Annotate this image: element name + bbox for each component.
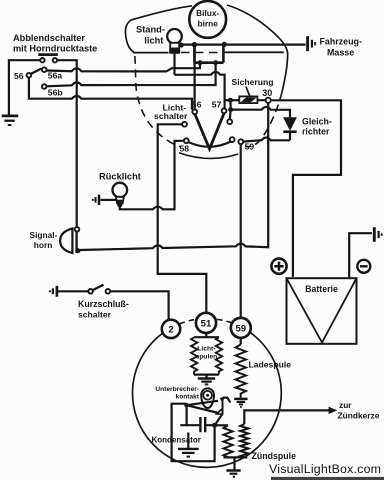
svg-text:Kurzschluß-: Kurzschluß-	[78, 299, 129, 309]
svg-text:VisualLightBox.com: VisualLightBox.com	[269, 462, 381, 476]
battery plus symbol	[271, 259, 286, 274]
svg-text:30: 30	[262, 88, 272, 98]
ground (ignition coil)	[226, 469, 240, 472]
shell bottom V	[195, 113, 224, 149]
wire: bilux left lead down to switch contact 56	[194, 47, 196, 109]
charging coil L2 Ladespule	[240, 338, 242, 345]
ground (dimmer switch)	[2, 115, 19, 118]
svg-text:2: 2	[168, 325, 173, 336]
wire: ruecklicht to contact 58 (hops feed wire)	[120, 141, 184, 210]
standlicht bulb B2	[167, 29, 182, 44]
bilux socket leads	[194, 44, 223, 62]
svg-text:Batterie: Batterie	[305, 284, 338, 294]
svg-text:59: 59	[235, 324, 246, 335]
reflector line solid right part	[225, 51, 284, 53]
ground (capacitor)	[187, 433, 189, 449]
svg-text:Rücklicht: Rücklicht	[99, 171, 141, 181]
ground (charging coil)	[234, 398, 247, 401]
ground (light coils)	[198, 377, 215, 379]
svg-text:59: 59	[245, 142, 255, 152]
node: filament tap left	[198, 60, 203, 65]
switch contact 59 right	[238, 139, 243, 144]
reflector line solid left segment	[133, 52, 169, 54]
node: filament tap right	[213, 60, 218, 65]
terminal 30 circle	[266, 98, 271, 103]
wire: battery minus to chassis ground	[349, 233, 372, 278]
wire: pushbutton to ground	[9, 60, 40, 114]
breaker lever arms	[187, 401, 219, 413]
ignition coil bottom bar	[224, 456, 248, 458]
svg-text:Sicherung: Sicherung	[232, 77, 274, 87]
headlamp shell outline (dashed lower-right)	[245, 92, 282, 147]
headlamp shell outline (solid parts)	[125, 5, 287, 92]
wire: switch area to fuse left	[225, 99, 240, 101]
wire: bulb common to Fahrzeug-Masse	[181, 43, 306, 45]
svg-text:mit Horndrucktaste: mit Horndrucktaste	[13, 44, 97, 54]
svg-text:51: 51	[201, 319, 212, 330]
ignition coil secondary	[240, 424, 248, 457]
reflector dashed line inside shell	[181, 52, 225, 54]
node on diode anode line	[228, 107, 233, 112]
svg-text:Bilux-: Bilux-	[196, 8, 219, 18]
wire: to ignition coil primary	[215, 424, 228, 426]
svg-text:56a: 56a	[48, 71, 63, 81]
ruecklicht bulb B3	[113, 183, 128, 198]
contact 56a	[42, 67, 47, 72]
wire 56: from dimmer terminal 56 to switch contact 56 (hops horn wire)	[29, 77, 192, 109]
svg-text:Masse: Masse	[327, 47, 354, 57]
wire: to spark plug with arrow	[244, 410, 329, 424]
svg-text:Unterbrecher-: Unterbrecher-	[155, 386, 199, 393]
ruecklicht bottom contact	[117, 203, 122, 208]
flywheel magneto circle (solid bottom)	[132, 333, 281, 468]
wire 57: to switch contact 57 (hops 56b riser)	[175, 72, 225, 109]
wire 56b: dimmer to bilux filament 2 (hops horn wire)	[46, 65, 215, 87]
horn top terminal	[75, 227, 80, 232]
wire: ruecklicht to ground	[101, 199, 117, 201]
contact 56b	[42, 84, 47, 89]
svg-text:57: 57	[212, 100, 222, 110]
svg-text:Licht-: Licht-	[197, 345, 215, 352]
ground (short-circuit switch)	[56, 286, 59, 297]
horn bottom contact	[75, 248, 80, 253]
flywheel dashed arc 51 to 59	[217, 319, 232, 323]
svg-text:Gleich-: Gleich-	[302, 116, 332, 126]
light coils L1 Lichtspulen	[194, 333, 219, 378]
svg-text:birne: birne	[198, 19, 219, 29]
breaker cam	[201, 388, 214, 408]
svg-text:Fahrzeug-: Fahrzeug-	[320, 37, 362, 47]
fuse F1	[239, 96, 257, 103]
wire: pushbutton right contact down to horn	[57, 60, 77, 227]
ground (ruecklicht)	[98, 195, 101, 206]
stub to lower node	[229, 100, 232, 109]
open terminal below fuse	[227, 119, 232, 124]
dimmer lever	[31, 69, 41, 74]
terminal 59	[231, 318, 251, 338]
svg-text:56: 56	[192, 100, 202, 110]
wire: switch feed down to terminal 51	[158, 124, 207, 313]
pushbutton contact right	[53, 58, 57, 62]
switch wiper arc	[187, 141, 232, 147]
battery G1 box	[287, 278, 357, 344]
terminal 51	[196, 313, 216, 333]
battery minus symbol	[357, 260, 370, 273]
stub to open terminal	[229, 111, 232, 119]
svg-text:schalter: schalter	[78, 309, 112, 319]
signal horn H1	[60, 228, 72, 253]
svg-text:58: 58	[180, 144, 190, 154]
svg-text:licht: licht	[144, 36, 163, 46]
switch contact 58	[184, 138, 189, 143]
svg-text:Zündkerze: Zündkerze	[338, 411, 380, 421]
bilux left contact dot	[192, 42, 197, 47]
bilux right contact dot	[222, 42, 227, 47]
ignition coil primary	[224, 425, 233, 457]
bilux bulb B1 circle	[189, 1, 226, 38]
switch contact 59 left	[230, 137, 235, 142]
wire 56a: dimmer to bilux filament 1 (hops horn wire)	[46, 65, 200, 72]
svg-text:richter: richter	[302, 127, 330, 137]
flywheel dashed arc 2 to 51	[180, 320, 196, 324]
svg-text:Signal-: Signal-	[30, 230, 58, 240]
wire: horn to terminal 30 (hops feed wire and 59 wire)	[80, 103, 268, 250]
pushbutton contact left	[40, 58, 44, 62]
node below fuse	[228, 98, 233, 103]
wire: contact 59 down to terminal 59	[240, 144, 242, 318]
switch contact 56	[192, 109, 197, 114]
breaker contacts	[222, 397, 224, 414]
switch contact 57	[222, 108, 227, 113]
svg-text:Zündspule: Zündspule	[252, 451, 297, 461]
svg-text:Stand-: Stand-	[136, 25, 165, 35]
wire: standlicht bottom to 57 line	[173, 53, 175, 75]
terminal 56 contact	[27, 73, 32, 78]
svg-text:schalter: schalter	[154, 111, 188, 121]
svg-text:kontakt: kontakt	[176, 394, 200, 401]
condenser box	[172, 404, 215, 462]
svg-text:Abblendschalter: Abblendschalter	[13, 33, 85, 43]
wire: switch to terminal 2	[110, 291, 168, 320]
standlicht side contact dot	[179, 42, 184, 47]
headlamp shell outline (dashed lower-left)	[135, 56, 181, 147]
switch travel arc	[179, 153, 238, 159]
switch feed contact	[182, 122, 187, 127]
ground (battery minus)	[373, 227, 376, 242]
standlicht bulb base	[170, 43, 179, 53]
fuse pointer	[246, 87, 250, 96]
node: capacitor to coil	[212, 423, 217, 428]
short-circuit switch S2	[58, 290, 88, 292]
svg-text:56: 56	[14, 71, 24, 81]
diode V1 (Gleichrichter)	[283, 117, 297, 131]
wire: diode cathode to switch contact 59 (hops wire to 30)	[243, 138, 290, 142]
wire: fuse to 30 and on to battery plus	[257, 100, 341, 277]
terminal 2	[162, 320, 180, 338]
svg-text:horn: horn	[34, 240, 53, 250]
wire: diode anode line (hops wire to 30)	[233, 107, 290, 117]
capacitor C1 Kondensator	[200, 417, 205, 432]
svg-text:spulen: spulen	[196, 354, 218, 361]
horn pushbutton bar	[38, 53, 58, 56]
svg-text:zur: zur	[339, 400, 352, 410]
ground Fahrzeug-Masse	[306, 36, 309, 51]
svg-text:Ladespule: Ladespule	[249, 359, 292, 369]
svg-text:56b: 56b	[48, 87, 63, 97]
svg-text:Kondensator: Kondensator	[152, 435, 201, 444]
